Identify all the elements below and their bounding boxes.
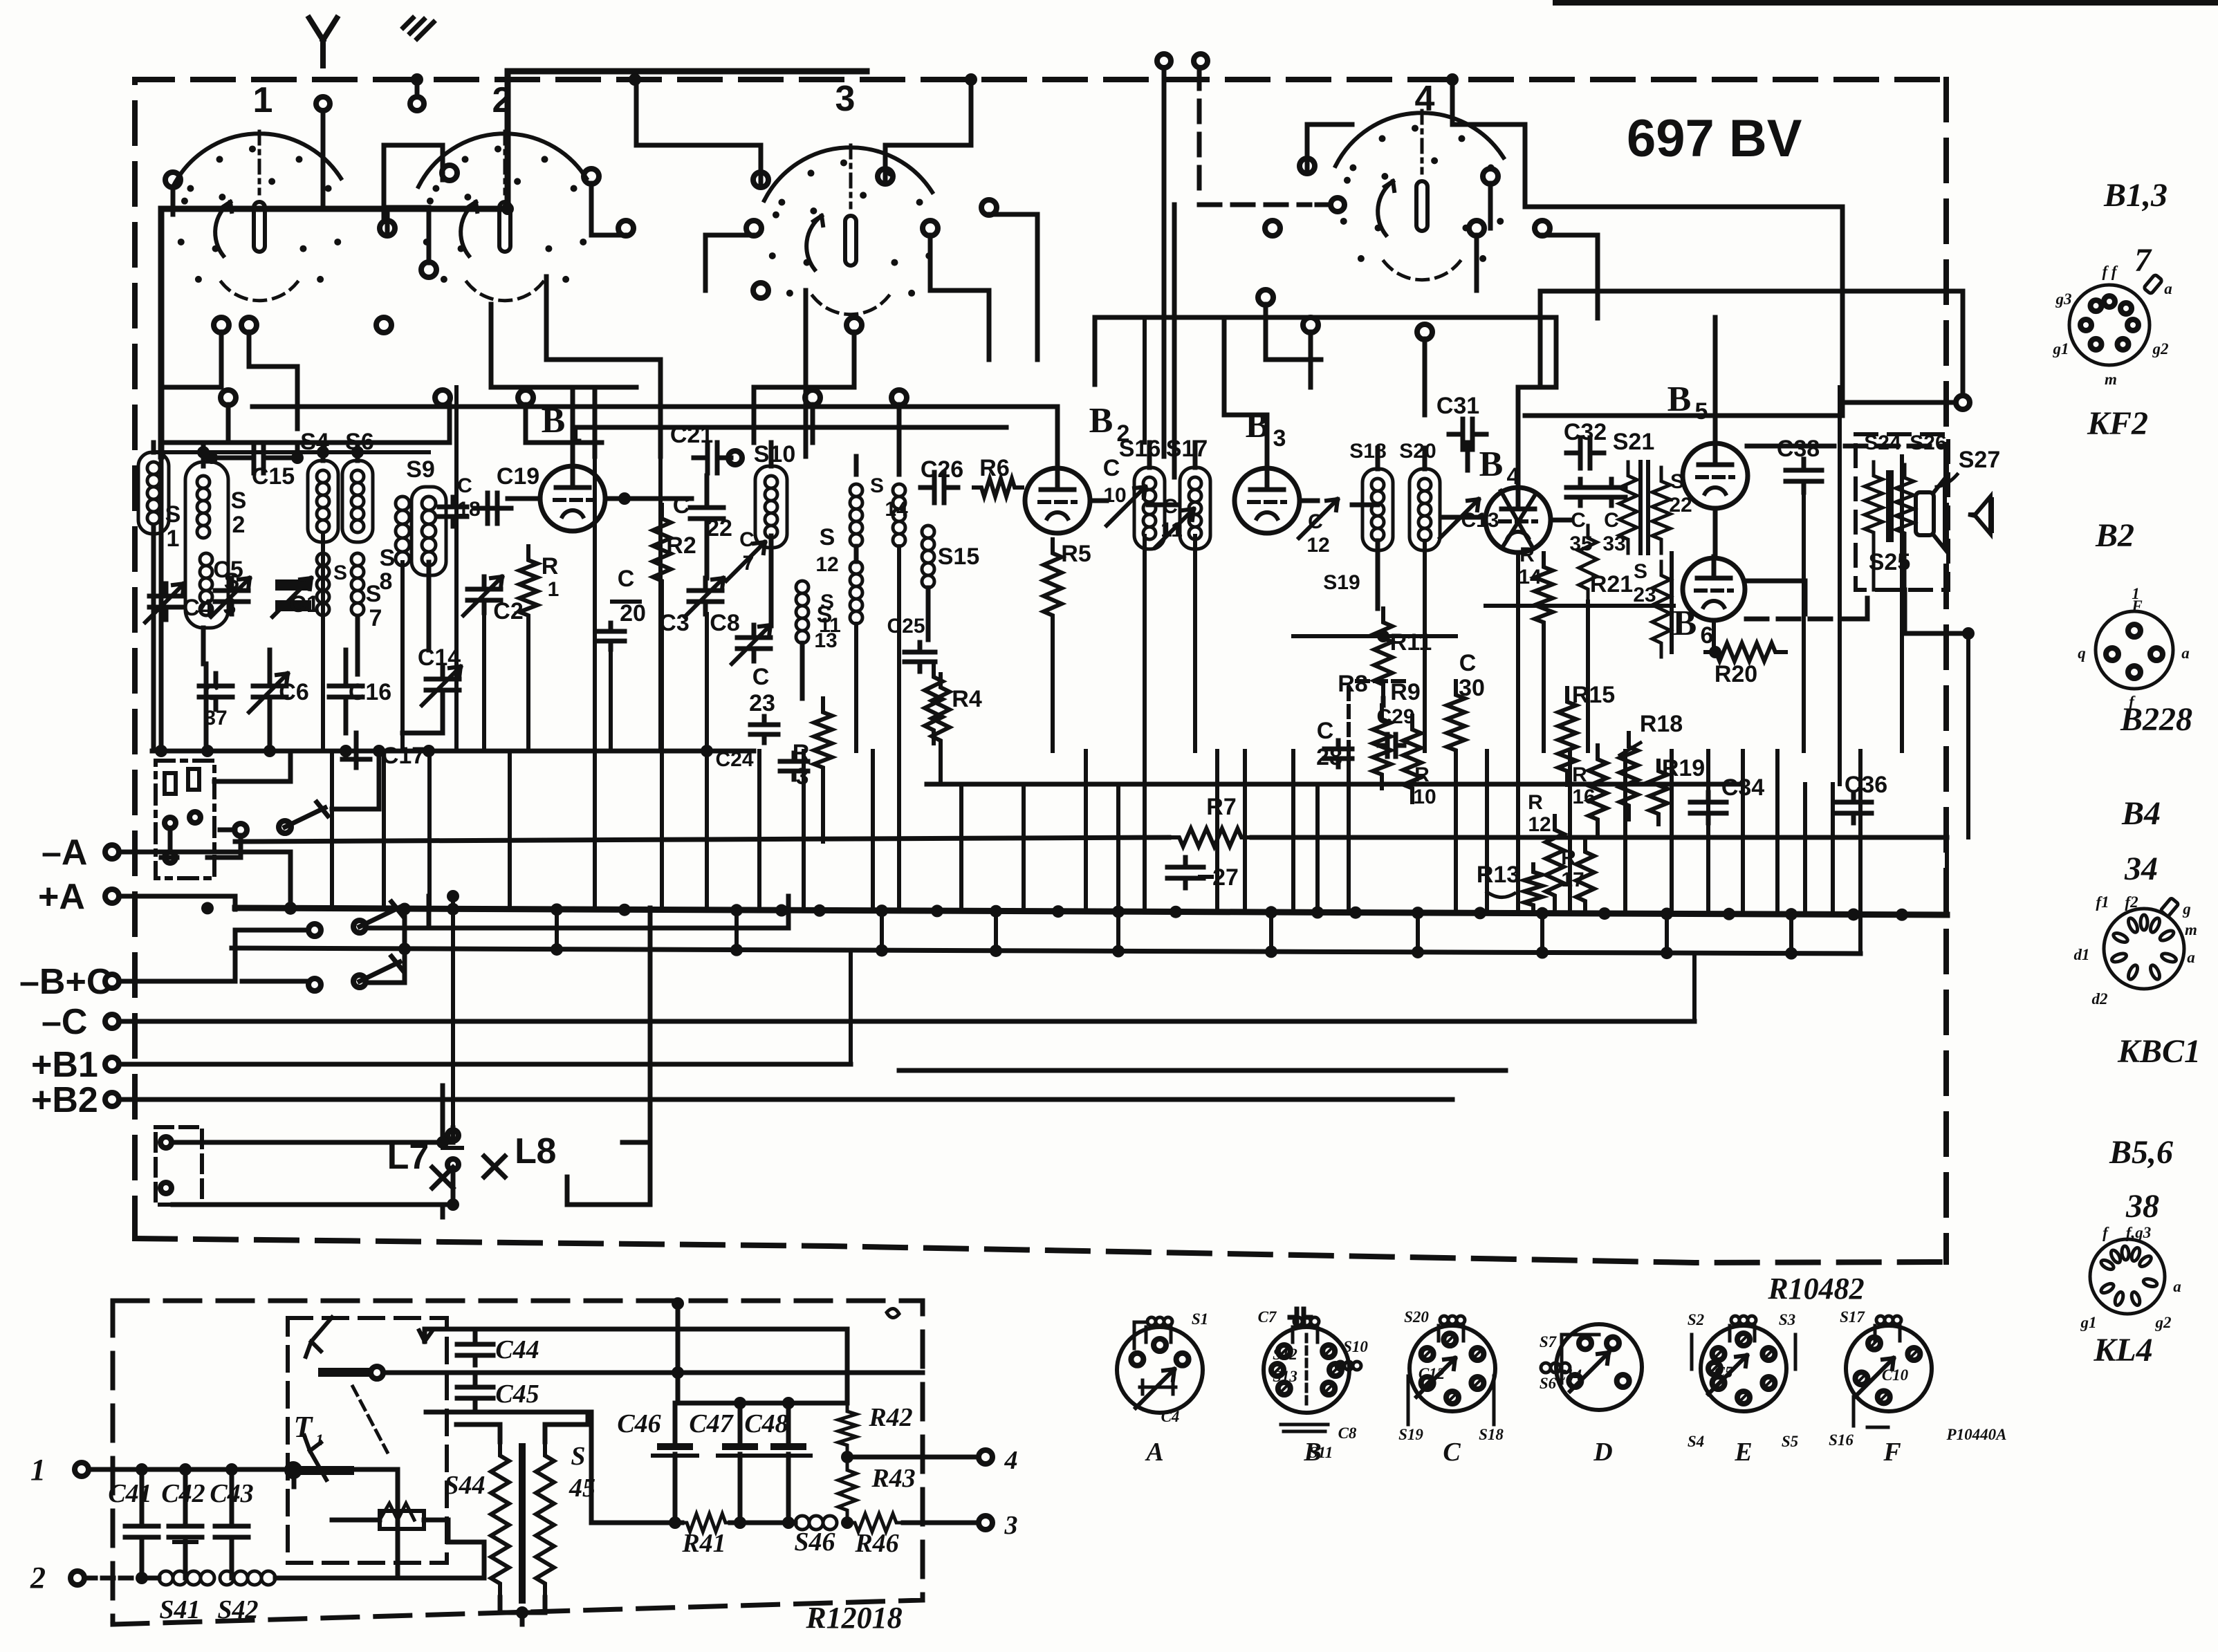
svg-text:17: 17 xyxy=(1561,869,1584,891)
svg-text:33: 33 xyxy=(1602,532,1625,555)
svg-text:S16: S16 xyxy=(1119,436,1161,462)
svg-text:R: R xyxy=(1561,846,1576,869)
svg-text:S12: S12 xyxy=(1273,1346,1297,1363)
svg-text:S: S xyxy=(1634,560,1647,583)
svg-text:L7: L7 xyxy=(387,1137,429,1177)
svg-text:R4: R4 xyxy=(952,686,982,712)
svg-text:g: g xyxy=(2182,900,2191,918)
svg-text:3: 3 xyxy=(796,763,809,790)
svg-text:L: L xyxy=(515,1131,537,1171)
svg-text:S5: S5 xyxy=(1782,1433,1798,1450)
svg-text:C29: C29 xyxy=(1376,705,1414,728)
svg-text:C1: C1 xyxy=(289,591,319,618)
svg-text:S: S xyxy=(333,562,347,584)
svg-text:C19: C19 xyxy=(497,463,539,490)
svg-text:8: 8 xyxy=(537,1131,557,1171)
svg-text:C: C xyxy=(1103,455,1120,481)
svg-text:C: C xyxy=(204,682,219,705)
svg-text:S10: S10 xyxy=(754,441,796,467)
svg-text:S: S xyxy=(571,1442,585,1471)
svg-text:–A: –A xyxy=(41,833,87,873)
svg-text:C6: C6 xyxy=(279,679,308,705)
svg-text:C8: C8 xyxy=(1338,1424,1357,1442)
svg-text:S24: S24 xyxy=(1864,431,1901,454)
svg-text:13: 13 xyxy=(814,629,837,652)
svg-text:S17: S17 xyxy=(1166,436,1208,462)
svg-text:S1: S1 xyxy=(1192,1310,1208,1328)
svg-text:C: C xyxy=(1308,510,1323,533)
svg-text:F: F xyxy=(1883,1438,1901,1467)
svg-text:C5: C5 xyxy=(213,557,243,583)
svg-text:f1: f1 xyxy=(2096,893,2109,911)
svg-text:14: 14 xyxy=(1518,566,1542,588)
svg-text:45: 45 xyxy=(569,1474,595,1503)
svg-text:R: R xyxy=(1528,791,1543,814)
svg-text:R46: R46 xyxy=(854,1529,898,1558)
svg-text:C16: C16 xyxy=(349,679,391,705)
svg-text:R: R xyxy=(1519,544,1535,566)
svg-text:C32: C32 xyxy=(1564,419,1607,445)
svg-text:S: S xyxy=(165,501,181,528)
svg-text:P10440A: P10440A xyxy=(1946,1426,2007,1443)
svg-text:14: 14 xyxy=(885,498,908,521)
svg-text:R13: R13 xyxy=(1477,862,1519,888)
svg-text:S21: S21 xyxy=(1613,429,1655,455)
svg-text:12: 12 xyxy=(815,553,838,576)
svg-text:S26: S26 xyxy=(1910,431,1946,454)
svg-text:S19: S19 xyxy=(1398,1426,1423,1443)
svg-text:C: C xyxy=(1317,718,1334,744)
svg-text:S18: S18 xyxy=(1479,1426,1504,1443)
svg-text:g1: g1 xyxy=(2053,340,2069,358)
svg-text:S15: S15 xyxy=(938,544,980,570)
svg-text:C12: C12 xyxy=(1418,1365,1445,1382)
svg-text:C45: C45 xyxy=(495,1380,539,1409)
svg-text:S18: S18 xyxy=(1349,440,1386,463)
svg-text:S7: S7 xyxy=(1540,1333,1558,1351)
svg-text:d1: d1 xyxy=(2074,946,2090,963)
svg-text:g3: g3 xyxy=(2055,290,2072,308)
svg-text:27: 27 xyxy=(1212,864,1239,891)
svg-text:+A: +A xyxy=(38,877,85,917)
svg-text:S44: S44 xyxy=(444,1471,485,1500)
svg-text:C: C xyxy=(457,474,472,497)
svg-text:3: 3 xyxy=(1273,425,1286,452)
svg-text:3: 3 xyxy=(1004,1511,1018,1540)
svg-text:S4: S4 xyxy=(300,429,329,455)
svg-text:D: D xyxy=(1593,1438,1612,1467)
svg-text:1: 1 xyxy=(315,1431,324,1449)
svg-text:a: a xyxy=(2164,280,2172,297)
svg-text:–C: –C xyxy=(41,1002,87,1042)
svg-text:S10: S10 xyxy=(1343,1338,1368,1355)
svg-text:C44: C44 xyxy=(495,1335,539,1364)
svg-text:d2: d2 xyxy=(2092,990,2108,1008)
svg-text:R15: R15 xyxy=(1572,682,1615,708)
svg-text:S41: S41 xyxy=(159,1595,200,1624)
svg-text:+B2: +B2 xyxy=(31,1080,98,1120)
svg-text:C24: C24 xyxy=(715,748,753,771)
svg-text:S: S xyxy=(817,602,833,628)
svg-text:R41: R41 xyxy=(681,1529,726,1558)
svg-text:2: 2 xyxy=(30,1561,46,1595)
svg-text:a: a xyxy=(2173,1278,2181,1295)
svg-text:C36: C36 xyxy=(1845,772,1887,798)
svg-text:34: 34 xyxy=(2124,851,2158,887)
svg-text:B2: B2 xyxy=(2095,517,2134,554)
svg-text:C31: C31 xyxy=(1436,393,1479,419)
svg-text:a: a xyxy=(2181,644,2190,662)
svg-text:f f: f f xyxy=(2102,263,2118,280)
svg-text:T: T xyxy=(294,1410,314,1444)
svg-text:g2: g2 xyxy=(2155,1314,2172,1331)
svg-text:R43: R43 xyxy=(871,1464,915,1493)
svg-text:C: C xyxy=(1459,650,1477,676)
svg-text:C15: C15 xyxy=(252,463,295,490)
svg-text:5: 5 xyxy=(1695,398,1708,425)
svg-text:S: S xyxy=(380,545,396,571)
svg-text:C: C xyxy=(618,566,635,592)
svg-text:C4: C4 xyxy=(1161,1408,1180,1425)
svg-text:R6: R6 xyxy=(979,455,1009,481)
svg-text:R: R xyxy=(1572,763,1587,786)
svg-text:m: m xyxy=(2105,371,2117,388)
svg-text:4: 4 xyxy=(1004,1446,1018,1475)
svg-text:R20: R20 xyxy=(1715,661,1757,687)
svg-text:C14: C14 xyxy=(418,644,461,671)
svg-text:R: R xyxy=(793,740,810,766)
svg-text:C48: C48 xyxy=(744,1409,788,1438)
svg-text:S: S xyxy=(231,488,247,514)
svg-text:S: S xyxy=(870,474,884,497)
svg-text:C: C xyxy=(1571,509,1586,532)
svg-text:–B+C: –B+C xyxy=(19,962,112,1002)
svg-text:1: 1 xyxy=(30,1453,46,1487)
svg-text:R7: R7 xyxy=(1206,794,1236,820)
svg-text:C26: C26 xyxy=(921,456,963,483)
svg-text:S42: S42 xyxy=(217,1595,258,1624)
svg-text:C3: C3 xyxy=(659,610,689,636)
svg-text:8: 8 xyxy=(380,568,393,595)
svg-text:R: R xyxy=(542,553,559,579)
svg-text:16: 16 xyxy=(1572,786,1595,808)
svg-text:S: S xyxy=(1670,470,1684,493)
svg-text:C34: C34 xyxy=(1721,774,1764,801)
svg-text:C47: C47 xyxy=(689,1409,734,1438)
svg-text:R9: R9 xyxy=(1390,679,1420,705)
svg-text:C: C xyxy=(1163,495,1178,518)
svg-text:2: 2 xyxy=(232,512,246,538)
svg-text:S4: S4 xyxy=(1688,1433,1704,1450)
svg-text:C: C xyxy=(673,492,690,519)
svg-text:12: 12 xyxy=(1528,813,1551,836)
svg-text:F: F xyxy=(2131,597,2142,615)
svg-text:7: 7 xyxy=(369,605,382,631)
svg-text:R10482: R10482 xyxy=(1767,1272,1864,1306)
svg-text:B: B xyxy=(1246,406,1270,445)
svg-text:C4: C4 xyxy=(183,595,213,621)
svg-text:B: B xyxy=(542,401,566,440)
svg-text:KL4: KL4 xyxy=(2093,1332,2152,1368)
svg-text:S46: S46 xyxy=(794,1528,835,1557)
svg-text:+B1: +B1 xyxy=(31,1045,98,1085)
svg-text:C17: C17 xyxy=(382,743,425,769)
svg-text:R18: R18 xyxy=(1640,711,1683,737)
svg-text:23: 23 xyxy=(749,690,775,716)
svg-text:S6: S6 xyxy=(1540,1375,1557,1392)
svg-text:m: m xyxy=(2185,921,2197,938)
svg-text:B4: B4 xyxy=(2121,795,2161,832)
svg-text:4: 4 xyxy=(1507,463,1520,490)
svg-text:697 BV: 697 BV xyxy=(1627,109,1802,168)
svg-text:22: 22 xyxy=(1669,494,1692,517)
svg-text:4: 4 xyxy=(1415,79,1435,119)
svg-text:C5: C5 xyxy=(1715,1364,1733,1381)
svg-text:A: A xyxy=(1145,1438,1163,1467)
svg-text:C41: C41 xyxy=(108,1479,151,1508)
svg-text:R: R xyxy=(1414,763,1430,786)
svg-text:1: 1 xyxy=(548,578,560,601)
svg-text:C38: C38 xyxy=(1777,436,1820,462)
svg-text:C2: C2 xyxy=(493,598,523,624)
svg-text:R19: R19 xyxy=(1662,755,1705,781)
svg-text:B1,3: B1,3 xyxy=(2103,177,2168,214)
svg-text:C: C xyxy=(1604,509,1619,532)
svg-text:6: 6 xyxy=(1701,622,1714,649)
svg-text:q: q xyxy=(2078,644,2086,662)
svg-text:R2: R2 xyxy=(666,532,696,559)
svg-text:C21: C21 xyxy=(670,422,713,448)
svg-text:S16: S16 xyxy=(1829,1431,1854,1449)
svg-text:C13: C13 xyxy=(1461,509,1499,532)
svg-text:28: 28 xyxy=(1316,744,1342,770)
svg-text:R42: R42 xyxy=(868,1403,912,1432)
svg-text:S17: S17 xyxy=(1840,1308,1865,1326)
svg-text:C14: C14 xyxy=(1555,1366,1582,1384)
svg-text:1: 1 xyxy=(167,526,180,552)
svg-text:S25: S25 xyxy=(1869,549,1911,575)
svg-text:2: 2 xyxy=(492,80,512,120)
svg-text:g2: g2 xyxy=(2152,340,2169,358)
svg-text:3: 3 xyxy=(835,79,856,119)
svg-text:B: B xyxy=(1479,445,1504,484)
svg-text:7: 7 xyxy=(743,552,755,575)
svg-text:23: 23 xyxy=(1633,584,1656,606)
svg-text:f,g3: f,g3 xyxy=(2126,1224,2151,1241)
svg-text:a: a xyxy=(2187,949,2195,966)
svg-text:B5,6: B5,6 xyxy=(2109,1134,2173,1171)
svg-text:B: B xyxy=(1667,380,1692,419)
svg-text:KBC1: KBC1 xyxy=(2117,1033,2201,1070)
svg-text:S13: S13 xyxy=(1273,1368,1297,1385)
svg-text:S19: S19 xyxy=(1323,571,1360,594)
svg-text:R21: R21 xyxy=(1590,571,1633,597)
svg-text:C8: C8 xyxy=(710,610,739,636)
svg-text:S11: S11 xyxy=(1309,1444,1333,1461)
svg-text:B: B xyxy=(1089,401,1113,440)
svg-text:38: 38 xyxy=(2125,1188,2159,1225)
svg-text:S6: S6 xyxy=(345,429,374,455)
svg-text:35: 35 xyxy=(1569,532,1592,555)
svg-text:C10: C10 xyxy=(1882,1366,1909,1384)
svg-text:37: 37 xyxy=(204,707,227,730)
svg-text:E: E xyxy=(1734,1438,1752,1467)
svg-text:3: 3 xyxy=(223,593,237,620)
svg-text:7: 7 xyxy=(2134,242,2152,279)
svg-text:f2: f2 xyxy=(2125,893,2138,911)
svg-text:20: 20 xyxy=(620,600,646,627)
svg-text:10: 10 xyxy=(1103,484,1126,507)
svg-text:B: B xyxy=(1673,604,1697,643)
svg-text:30: 30 xyxy=(1459,675,1485,701)
svg-text:S27: S27 xyxy=(1959,447,2001,473)
svg-text:12: 12 xyxy=(1306,534,1329,557)
svg-text:g1: g1 xyxy=(2080,1314,2097,1331)
svg-text:KF2: KF2 xyxy=(2087,405,2148,442)
svg-text:C46: C46 xyxy=(617,1409,660,1438)
svg-text:C: C xyxy=(1443,1438,1461,1467)
svg-text:1: 1 xyxy=(569,420,582,447)
svg-text:C: C xyxy=(739,528,755,551)
svg-text:B228: B228 xyxy=(2120,701,2192,738)
svg-text:1: 1 xyxy=(253,80,273,120)
svg-text:R8: R8 xyxy=(1338,671,1367,697)
svg-text:C7: C7 xyxy=(1258,1308,1277,1326)
svg-text:22: 22 xyxy=(706,515,732,541)
svg-text:C25: C25 xyxy=(887,615,925,638)
svg-text:11: 11 xyxy=(1161,519,1183,541)
svg-text:C42: C42 xyxy=(161,1479,205,1508)
svg-text:S3: S3 xyxy=(1779,1311,1795,1328)
svg-text:S20: S20 xyxy=(1399,440,1436,463)
svg-text:R12018: R12018 xyxy=(805,1601,902,1635)
svg-text:S20: S20 xyxy=(1404,1308,1429,1326)
svg-text:C43: C43 xyxy=(210,1479,253,1508)
svg-text:18: 18 xyxy=(457,498,480,521)
svg-text:S2: S2 xyxy=(1688,1311,1704,1328)
svg-text:10: 10 xyxy=(1413,786,1436,808)
svg-text:C: C xyxy=(752,664,770,690)
svg-text:S: S xyxy=(820,524,835,550)
svg-text:R11: R11 xyxy=(1390,629,1432,656)
svg-text:R5: R5 xyxy=(1061,541,1091,567)
svg-text:S9: S9 xyxy=(406,456,435,483)
